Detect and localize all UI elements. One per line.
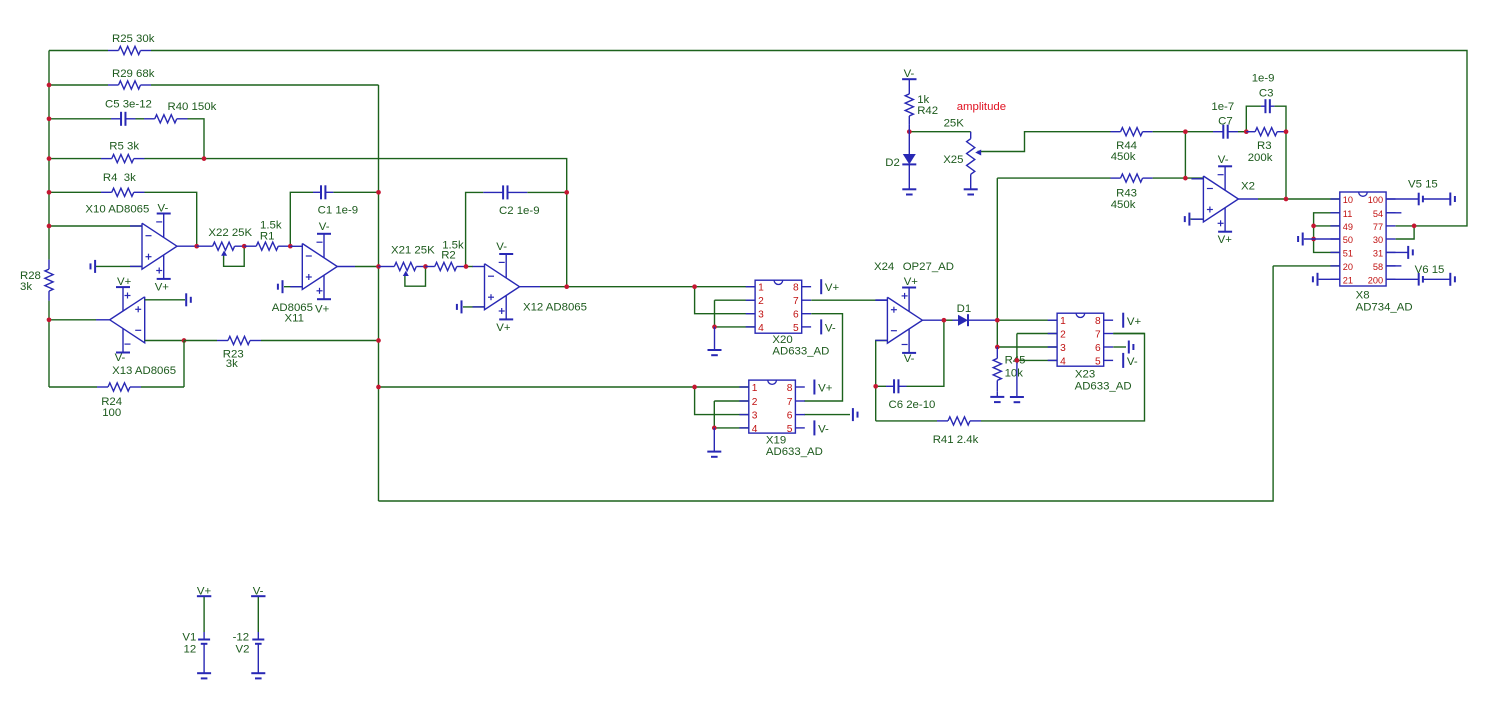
wire R41 to X23 pin7 <box>981 334 1145 421</box>
junction R42 D2 <box>907 129 912 134</box>
svg-text:X13 AD8065: X13 AD8065 <box>112 365 176 377</box>
resistor R29 <box>108 81 151 89</box>
resistor R40 <box>144 115 188 123</box>
label R45 name <box>1005 355 1026 367</box>
svg-text:R2: R2 <box>441 250 456 262</box>
svg-text:7: 7 <box>1095 330 1101 341</box>
svg-text:C2 1e-9: C2 1e-9 <box>499 205 540 217</box>
resistor R1 <box>244 242 290 250</box>
wire X23 pin7 stub join <box>1113 333 1144 335</box>
label X24 V- <box>904 353 915 365</box>
svg-text:6: 6 <box>787 411 793 422</box>
ground X8 pin21 <box>1313 273 1318 286</box>
svg-text:V-: V- <box>158 202 169 214</box>
ground V5 <box>1450 193 1455 206</box>
junction R3 right <box>1284 129 1289 134</box>
wire C6 to output node <box>907 320 944 386</box>
label X19 name <box>766 435 786 447</box>
op-amp X13 <box>110 287 145 352</box>
label V2 value <box>233 631 249 643</box>
wire R4 row left <box>49 191 101 193</box>
label X10 <box>85 204 149 216</box>
svg-text:V+: V+ <box>904 276 919 288</box>
ground V6 <box>1450 273 1455 286</box>
label R23 value <box>226 358 238 370</box>
op-amp X13 output stub <box>96 319 110 321</box>
svg-text:1: 1 <box>1060 316 1066 327</box>
battery V6 lead <box>1386 278 1419 280</box>
svg-text:7: 7 <box>793 296 799 307</box>
svg-text:1e-9: 1e-9 <box>1252 73 1275 85</box>
label R28 value <box>20 281 32 293</box>
svg-text:R28: R28 <box>20 270 41 282</box>
ground X19 pin6 <box>853 408 858 421</box>
svg-text:V+: V+ <box>197 586 212 598</box>
label D1 <box>957 303 972 315</box>
wire R42 to X25 top <box>909 131 970 133</box>
svg-text:V2: V2 <box>236 643 250 655</box>
svg-text:R42: R42 <box>917 105 938 117</box>
wire R3 node down to X2 output <box>1285 132 1287 199</box>
svg-text:C7: C7 <box>1218 116 1233 128</box>
potentiometer X25 <box>967 132 982 190</box>
label R44 value <box>1111 151 1136 163</box>
svg-text:V-: V- <box>1127 356 1138 368</box>
label X13 V+ <box>117 276 132 288</box>
ground X13 noninverting <box>186 293 191 306</box>
junction R1 right <box>288 244 293 249</box>
label V5 <box>1408 179 1438 191</box>
wire R42 to node <box>908 125 910 132</box>
svg-text:1e-7: 1e-7 <box>1211 101 1234 113</box>
op-amp X24 output stub <box>922 319 944 321</box>
op-amp X2 output stub <box>1238 198 1258 200</box>
capacitor C6 <box>886 379 907 393</box>
svg-text:12: 12 <box>184 643 197 655</box>
label X11 name1 <box>272 302 313 314</box>
junction R44 R43 <box>1183 129 1188 134</box>
wire X21 wiper loop <box>405 267 426 287</box>
wire X13 output to rail <box>49 319 96 321</box>
capacitor C3 <box>1261 99 1275 113</box>
wire X19 pin2-pin4 vertical <box>713 401 715 428</box>
svg-text:2: 2 <box>758 296 764 307</box>
wire X11 output to rail <box>355 266 379 268</box>
wire X2 output row <box>1258 198 1340 200</box>
svg-text:200: 200 <box>1368 275 1383 285</box>
junction R2 right <box>464 264 469 269</box>
svg-text:R43: R43 <box>1116 188 1137 200</box>
op-amp X12 <box>473 254 520 319</box>
resistor R25 <box>108 46 151 54</box>
junction X19 pin1 <box>692 385 697 390</box>
junction X8 pin77 <box>1412 224 1417 229</box>
wire R29 row right <box>151 84 379 86</box>
IC X8 AD734 <box>1330 192 1395 286</box>
ground V1 <box>197 673 211 678</box>
wire X20 pin7 to X24 noninv <box>811 299 887 301</box>
svg-text:V+: V+ <box>825 282 840 294</box>
label X20 part <box>772 346 829 358</box>
wire R23 node down to R24 <box>183 341 185 388</box>
wire X8 pin30 lead <box>1396 226 1415 239</box>
wire C6 left lead join <box>876 385 886 387</box>
label V1 name <box>182 631 196 643</box>
label R43 name <box>1116 188 1137 200</box>
op-amp X11 <box>290 234 337 299</box>
resistor R44 <box>1111 128 1153 136</box>
wire C3 loop <box>1246 106 1261 132</box>
label R41 <box>933 434 979 446</box>
battery V6 plates <box>1419 273 1451 286</box>
ground V2 <box>251 673 265 678</box>
ground X25 <box>964 189 978 194</box>
label R2 name <box>441 250 456 262</box>
svg-text:R40 150k: R40 150k <box>168 101 217 113</box>
svg-text:54: 54 <box>1373 209 1383 219</box>
wire C1 right branch <box>333 191 378 193</box>
wire X20 pin2-pin4 vertical <box>714 300 716 327</box>
wire R24 row left <box>49 386 97 388</box>
junction C6 left <box>873 384 878 389</box>
wire X23 pin2-pin4 vertical <box>1016 334 1018 361</box>
junction R23 left <box>182 338 187 343</box>
wire X19 pin3 branch <box>695 387 749 415</box>
label X12 V- <box>496 241 507 253</box>
resistor R24 <box>97 383 141 391</box>
wire C2 node down to X12 output <box>566 192 568 286</box>
svg-text:51: 51 <box>1343 248 1353 258</box>
svg-text:V-: V- <box>904 68 915 80</box>
ground X20 <box>708 327 722 355</box>
label X11 V- <box>319 221 330 233</box>
wire X23 pin6 to ground <box>1113 346 1126 348</box>
wire C1 left branch <box>290 192 313 246</box>
svg-text:8: 8 <box>793 283 799 294</box>
svg-text:X22 25K: X22 25K <box>208 227 252 239</box>
svg-text:V-: V- <box>1218 154 1229 166</box>
svg-text:50: 50 <box>1343 235 1353 245</box>
junction rail X10 input <box>47 224 52 229</box>
wire X20 pin3 branch <box>695 287 756 314</box>
wire R43 row <box>997 177 1110 179</box>
svg-text:AD734_AD: AD734_AD <box>1356 302 1413 314</box>
resistor R45 <box>993 347 1001 392</box>
svg-text:4: 4 <box>758 323 764 334</box>
label V2 name <box>236 643 250 655</box>
label X23 part <box>1075 381 1132 393</box>
junction X19 rail <box>376 385 381 390</box>
junction X19 pin4 <box>712 426 717 431</box>
wire X8 pin58 stub <box>1386 265 1401 267</box>
svg-text:OP27_AD: OP27_AD <box>903 261 954 273</box>
svg-text:X23: X23 <box>1075 369 1095 381</box>
resistor R5 <box>101 155 145 163</box>
svg-text:X20: X20 <box>772 334 792 346</box>
potentiometer X22 <box>197 242 245 256</box>
svg-text:X11: X11 <box>285 312 304 324</box>
label C2 <box>499 205 540 217</box>
svg-text:D1: D1 <box>957 303 972 315</box>
label C5 <box>105 99 152 111</box>
wire X8 pin50 ground lead <box>1304 238 1340 240</box>
svg-text:R25 30k: R25 30k <box>112 33 155 45</box>
label amplitude <box>957 101 1006 113</box>
svg-text:AD633_AD: AD633_AD <box>772 346 829 358</box>
svg-text:21: 21 <box>1343 275 1353 285</box>
power V2 V- <box>251 586 265 598</box>
wire X12 inverting input join <box>466 266 473 268</box>
junction X11 output rail <box>376 264 381 269</box>
svg-text:V+: V+ <box>155 281 170 293</box>
battery V5 plates <box>1419 193 1451 206</box>
junction rail R5 <box>47 156 52 161</box>
svg-text:2: 2 <box>752 397 758 408</box>
wire X19 pin1 row <box>379 386 749 388</box>
junction X23 pin4 <box>1015 358 1020 363</box>
svg-text:4: 4 <box>1060 356 1066 367</box>
ground X23 pins <box>1010 360 1024 402</box>
svg-text:450k: 450k <box>1111 151 1136 163</box>
label X13 V- <box>115 352 126 364</box>
wire R23 right <box>261 340 379 342</box>
label X2 V- <box>1218 154 1229 166</box>
svg-text:V-: V- <box>319 221 330 233</box>
label R45 value <box>1005 368 1024 380</box>
resistor R28 <box>45 260 53 301</box>
svg-text:X21 25K: X21 25K <box>391 244 435 256</box>
wire V1 battery top <box>203 596 205 632</box>
svg-text:V6 15: V6 15 <box>1415 264 1445 276</box>
svg-text:C3: C3 <box>1259 87 1274 99</box>
wire R24 to node <box>141 386 184 388</box>
label X11 name2 <box>285 312 304 324</box>
op-amp X24 <box>875 288 922 353</box>
junction rail R29 <box>47 83 52 88</box>
wire X23 pin3 lead <box>997 346 1057 348</box>
svg-text:V1: V1 <box>182 631 196 643</box>
label C3 value <box>1252 73 1275 85</box>
svg-text:X24: X24 <box>874 261 894 273</box>
wire C2 left branch <box>466 192 484 266</box>
wire C5 row left <box>49 118 111 120</box>
ground X12 noninverting <box>457 300 462 313</box>
IC X20 AD633 <box>746 280 811 334</box>
wire X8 pin11 branch <box>1314 213 1340 253</box>
wire R43 to X2 inverting <box>1153 177 1204 179</box>
power X23 V- <box>1123 353 1138 368</box>
svg-text:4: 4 <box>752 424 758 435</box>
wire R29 row left <box>49 84 108 86</box>
resistor R42 <box>905 85 913 125</box>
junction rail C5 <box>47 116 52 121</box>
ground X11 noninverting <box>278 280 283 293</box>
wire C3 right <box>1274 106 1286 132</box>
label X24 name <box>874 261 894 273</box>
svg-text:R5 3k: R5 3k <box>109 140 139 152</box>
svg-text:R44: R44 <box>1116 140 1137 152</box>
label X13 <box>112 365 176 377</box>
wire C2 right branch <box>527 191 566 193</box>
svg-text:10: 10 <box>1343 195 1353 205</box>
wire C5 to R40 <box>136 118 145 120</box>
wire X25 wiper to R44 <box>978 132 1111 152</box>
wire X20 pin6 to X19 pin7 <box>804 314 842 401</box>
svg-text:25K: 25K <box>944 118 965 130</box>
junction X20 pin4 <box>712 325 717 330</box>
junction X12 out X20 <box>692 284 697 289</box>
svg-text:-12: -12 <box>233 631 249 643</box>
label R3 name <box>1257 140 1272 152</box>
op-amp X2 <box>1191 166 1238 231</box>
svg-text:31: 31 <box>1373 248 1383 258</box>
junction X24 output <box>942 318 947 323</box>
resistor R41 <box>937 417 981 425</box>
label X12 V+ <box>496 322 511 334</box>
battery V1 <box>198 640 210 644</box>
junction X12 out C2 <box>564 284 569 289</box>
junction R43 X2 <box>1183 176 1188 181</box>
svg-text:V-: V- <box>825 323 836 335</box>
wire X8 pin49 lead <box>1314 225 1340 227</box>
battery V1 lower lead <box>203 644 205 673</box>
label R40 <box>168 101 217 113</box>
label V1 value <box>184 643 197 655</box>
label C6 <box>889 399 936 411</box>
junction R40-R5 <box>202 156 207 161</box>
svg-text:200k: 200k <box>1248 152 1273 164</box>
capacitor C5 <box>111 112 136 126</box>
wire V- to R42 <box>908 79 910 85</box>
wire X20 pin4 lead <box>715 326 756 328</box>
op-amp X11 output stub <box>337 266 355 268</box>
label R4 <box>103 172 136 184</box>
wire R41 row <box>876 420 937 422</box>
svg-text:R41 2.4k: R41 2.4k <box>933 434 979 446</box>
svg-text:5: 5 <box>787 424 793 435</box>
label R44 name <box>1116 140 1137 152</box>
label X20 name <box>772 334 792 346</box>
svg-text:X10 AD8065: X10 AD8065 <box>85 204 149 216</box>
svg-text:3: 3 <box>758 310 764 321</box>
power V1 V+ <box>197 586 212 598</box>
ground X8 pin31 <box>1408 246 1413 259</box>
wire X19 pin6 to ground <box>804 414 850 416</box>
label X10 V+ <box>155 281 170 293</box>
junction D1 node <box>995 318 1000 323</box>
svg-text:X2: X2 <box>1241 180 1255 192</box>
svg-text:R4 3k: R4 3k <box>103 172 136 184</box>
svg-text:1: 1 <box>758 283 764 294</box>
potentiometer X21 <box>379 262 426 276</box>
battery V1 upper lead <box>203 632 205 640</box>
op-amp X10 output stub <box>177 245 197 247</box>
svg-text:3k: 3k <box>226 358 238 370</box>
svg-text:V+: V+ <box>818 383 833 395</box>
ground D2 <box>902 189 916 194</box>
label R43 value <box>1111 199 1136 211</box>
junction X21 right <box>423 264 428 269</box>
svg-text:5: 5 <box>793 323 799 334</box>
svg-text:8: 8 <box>1095 316 1101 327</box>
junction X8 pin50 <box>1311 237 1316 242</box>
svg-text:V+: V+ <box>117 276 132 288</box>
junction X8 pin49 <box>1311 224 1316 229</box>
wire X10 noninverting input to ground <box>96 265 142 267</box>
battery V2 <box>252 640 264 644</box>
wire X24 noninv stub <box>875 299 887 301</box>
label X8 name <box>1356 290 1370 302</box>
wire R23 left lead join <box>184 340 217 342</box>
svg-text:V+: V+ <box>1218 234 1233 246</box>
svg-text:AD633_AD: AD633_AD <box>766 446 823 458</box>
svg-text:V-: V- <box>115 352 126 364</box>
battery V2 upper lead <box>257 632 259 640</box>
svg-text:amplitude: amplitude <box>957 101 1006 113</box>
IC X23 AD633 <box>1048 313 1113 367</box>
ground R45 <box>990 392 1004 402</box>
svg-text:10k: 10k <box>1005 368 1024 380</box>
svg-text:X8: X8 <box>1356 290 1370 302</box>
power X20 V- <box>821 319 836 334</box>
label R2 value <box>442 240 464 252</box>
svg-text:20: 20 <box>1343 262 1353 272</box>
wire R5 row right to C2 node <box>145 159 567 193</box>
junction X10 output <box>194 244 199 249</box>
wire X12 noninv input to ground <box>463 306 485 308</box>
op-amp X10 <box>130 214 177 279</box>
power X23 V+ <box>1123 313 1141 328</box>
label X25 name <box>943 154 963 166</box>
capacitor C1 <box>313 185 333 199</box>
svg-text:X19: X19 <box>766 435 786 447</box>
wire bottom loop <box>379 266 1274 501</box>
svg-text:C1 1e-9: C1 1e-9 <box>318 205 359 217</box>
wire X10 inverting input <box>49 225 142 227</box>
svg-text:V+: V+ <box>315 304 330 316</box>
wire X22 wiper loop <box>224 246 245 266</box>
junction C7 R3 <box>1244 129 1249 134</box>
label X10 V- <box>158 202 169 214</box>
diode D1 <box>953 314 998 326</box>
svg-text:5: 5 <box>1095 356 1101 367</box>
power X19 V+ <box>814 380 832 395</box>
svg-text:2: 2 <box>1060 330 1066 341</box>
label R42 value <box>917 94 929 106</box>
ground X8 pin50 <box>1298 233 1303 246</box>
label R24 value <box>102 407 121 419</box>
resistor R4 <box>101 188 145 196</box>
wire X8 pin20 from bottom loop <box>1273 265 1340 267</box>
label X19 part <box>766 446 823 458</box>
label R1 name <box>260 230 275 242</box>
wire R5 row left <box>49 158 101 160</box>
svg-text:V-: V- <box>818 424 829 436</box>
label R23 name <box>223 348 244 360</box>
battery V5 lead <box>1386 198 1419 200</box>
diode D2 <box>902 132 916 190</box>
label X12 <box>523 302 587 314</box>
svg-text:100: 100 <box>1368 195 1383 205</box>
label D2 <box>885 157 900 169</box>
capacitor C7 <box>1213 125 1238 139</box>
label X24 part <box>903 261 954 273</box>
svg-text:3k: 3k <box>20 281 32 293</box>
resistor R43 <box>1111 174 1153 182</box>
junction R45 top <box>995 345 1000 350</box>
label X25 value <box>944 118 965 130</box>
svg-text:1: 1 <box>752 383 758 394</box>
